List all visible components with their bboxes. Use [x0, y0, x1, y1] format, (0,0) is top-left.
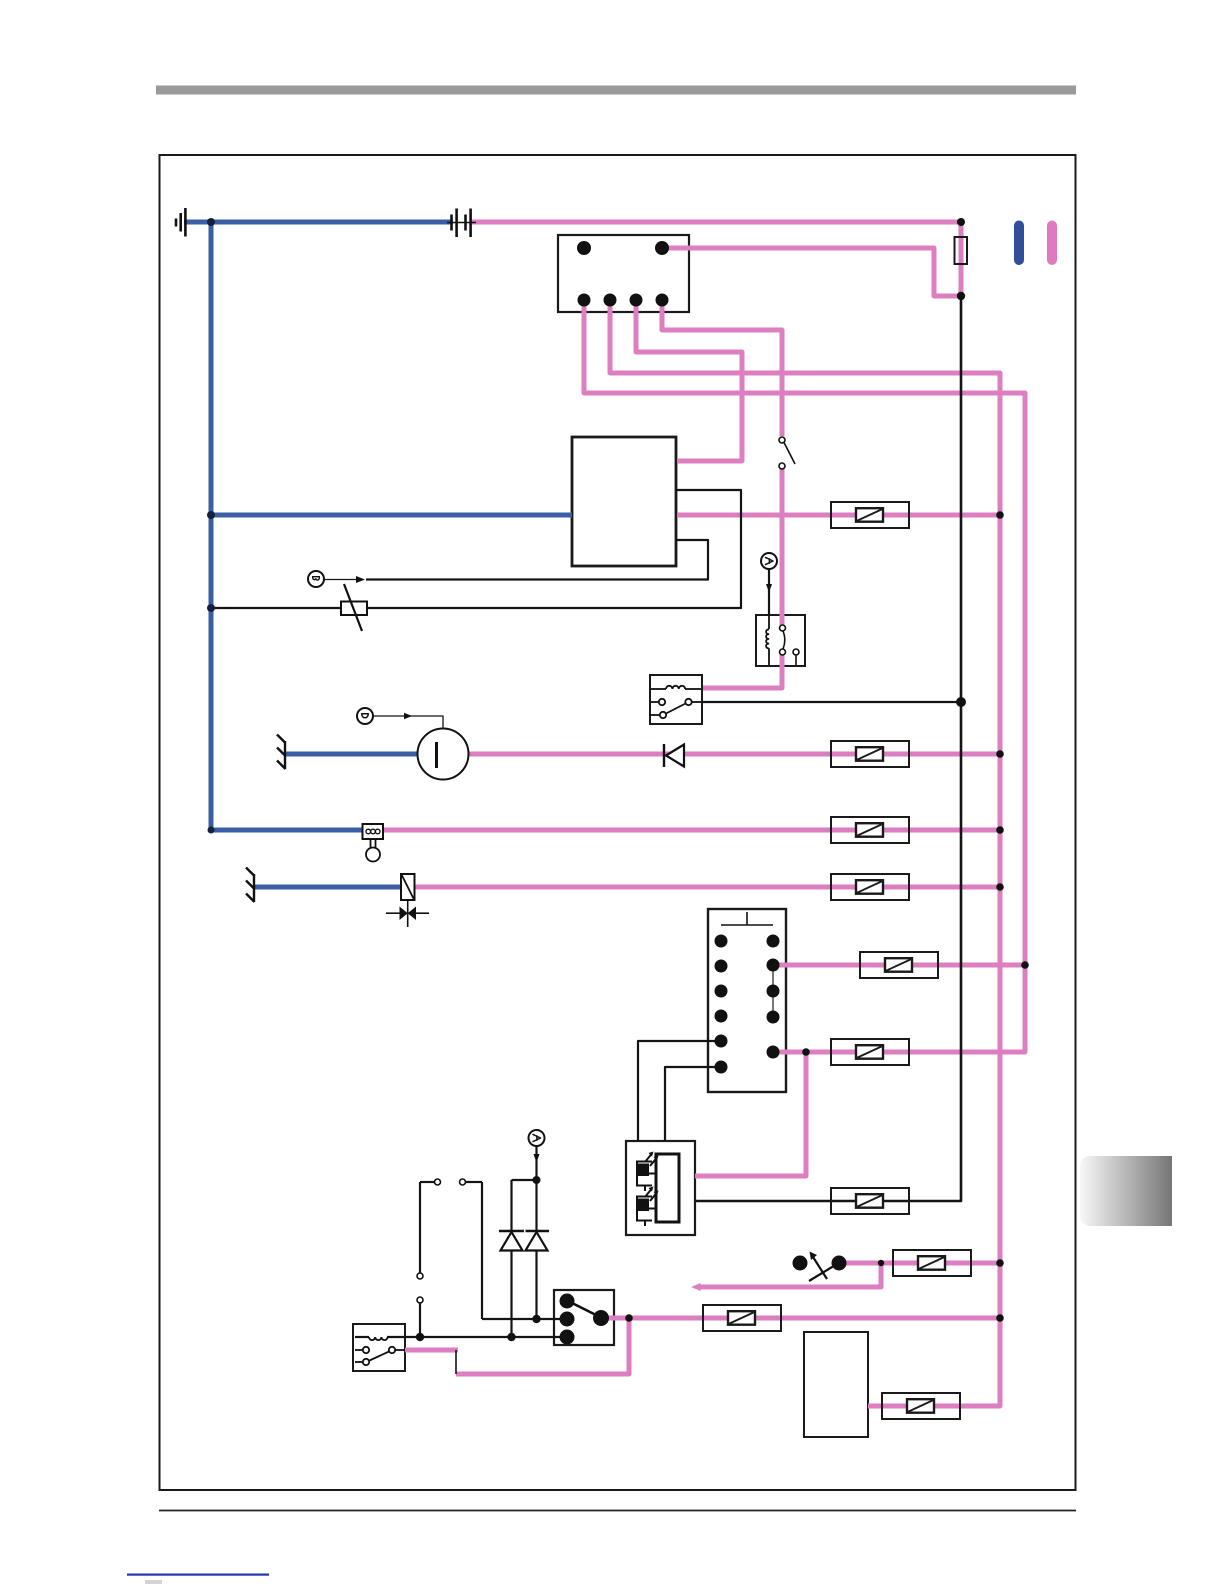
switch SW1 (in pink wire above relay K1) [779, 437, 795, 469]
wire blue to ECU [211, 513, 572, 518]
node blue bus fusible row [207, 604, 215, 612]
wire blue top feed: ground G1 to connector pair [184, 220, 453, 225]
wire black diode D3 branch [535, 1180, 537, 1232]
connector pair symbol CN1 (on top feed row) [447, 209, 476, 238]
diode D1 (gauge row) [664, 744, 684, 767]
relay K2 box (horn relay) [650, 675, 702, 724]
node blue bus corner [208, 827, 215, 834]
connector J2 pins (right column) [767, 935, 780, 948]
ground G1 (battery negative, top left) [176, 208, 185, 237]
relay K3 coil [369, 1337, 388, 1340]
node black bus at relay K2 row [956, 697, 966, 707]
wire black terminal A2 to diode node [535, 1146, 537, 1180]
fuse F6 (J2 lower row) [831, 1039, 909, 1065]
wire pink J2 pin row to bus B [773, 963, 1026, 968]
footer rule [159, 1510, 1076, 1512]
node blue bus ECU row [207, 511, 215, 519]
legend pink bar [1047, 221, 1057, 266]
connector J2 pins (left column) [715, 935, 728, 948]
terminal circle A2 [529, 1130, 545, 1163]
igniter box U2 [626, 1141, 695, 1235]
wire black terminal A1 to relay K1 coil [768, 569, 770, 615]
chassis ground G3 (valve row) [246, 868, 255, 903]
wire black terminal B lead [324, 579, 362, 581]
wire pink continuation arrow (left end of rheostat branch) [691, 1283, 701, 1291]
relay K1 box (with A terminal) [756, 615, 805, 666]
wire pink ECU output row [677, 513, 1000, 518]
fuse F1 (ECU row) [831, 502, 909, 528]
wire pink relay K1 out to relay K2 [703, 655, 782, 688]
diode D2 [499, 1231, 524, 1251]
border frame [160, 155, 1076, 1490]
node bus A ECU row [996, 511, 1004, 519]
relay K1 contacts [780, 625, 800, 665]
connector block J1 (top, ignition switch connector) [558, 235, 689, 312]
footer blue underline [127, 1574, 269, 1576]
connector block J2 (main multi-pin connector) [708, 909, 786, 1092]
wire pink top feed row [471, 220, 961, 225]
chassis ground G2 (gauge row) [277, 735, 286, 770]
wire pink igniter to J2 branch [695, 1052, 806, 1176]
switch SW3 contacts (loop top) [435, 1179, 466, 1185]
wire pink through vertical fuse F0 [959, 222, 964, 296]
wire black right bus from fuse F0 down to igniter fuse row [695, 296, 961, 1201]
page edge gray tab [1080, 1156, 1172, 1226]
solenoid valve V1 [386, 874, 429, 927]
wire black diode D2 branch [510, 1180, 512, 1232]
node loop left leg bottom [416, 1333, 424, 1341]
wire pink SW2 loop to relay K3 [456, 1318, 629, 1374]
wire pink horn row [383, 828, 1000, 833]
wire blue bus vertical [211, 222, 364, 830]
wire pink rheostat row [839, 1261, 1000, 1266]
wire black J2 to igniter feed 2 [665, 1067, 721, 1141]
wire black row to SW2 middle pin [482, 1318, 567, 1320]
relay K3 box (bottom left) [353, 1324, 405, 1371]
fuse F9 (SW2 row) [703, 1305, 781, 1331]
igniter transistor glyph 1 [637, 1152, 659, 1192]
switch SW2 poles [560, 1294, 610, 1345]
wire black thin link at relay K3 output [455, 1350, 457, 1374]
header gray bar [156, 86, 1076, 95]
node top feed at fuse F0 top [957, 218, 965, 226]
fuse F7 (igniter black row) [831, 1188, 909, 1214]
wire pink J1 pin2 to right bus A then bottom fuse row [610, 300, 1000, 1406]
terminal circle D [357, 708, 412, 724]
node igniter branch [802, 1048, 810, 1056]
fuse F8 (rheostat row) [893, 1250, 971, 1276]
node rheostat branch [878, 1260, 884, 1266]
relay K1 coil [766, 615, 769, 665]
ignition switch SW2 box (bottom) [554, 1290, 614, 1345]
horn H1 [363, 824, 384, 862]
connector J2 key mark (T) [721, 912, 773, 925]
connector J1 pins (bottom row) [578, 294, 591, 307]
connector J2 internal links [772, 965, 774, 1017]
footer faint text remnant [145, 1580, 162, 1584]
node bus B J2 row [1021, 961, 1029, 969]
terminal circle B [308, 571, 365, 587]
node diode D3 bottom [532, 1315, 540, 1323]
node SW2 output branch [625, 1314, 633, 1322]
node fuse F0 bottom [957, 292, 965, 300]
node bus A gauge row [996, 750, 1004, 758]
wire black SW3 loop top with contacts gap [420, 1181, 434, 1183]
fuse F5 (J2 upper row) [860, 952, 938, 978]
rheostat R1 (two poles with arrow) [793, 1252, 847, 1282]
fuse F3 (horn row) [831, 817, 909, 843]
relay K3 contacts [355, 1347, 405, 1365]
wire pink SW2 output row [604, 1316, 1000, 1321]
connector contacts on loop left leg [417, 1273, 423, 1303]
legend blue bar [1014, 221, 1024, 266]
node bus A horn row [996, 826, 1004, 834]
wire pink J1 pin3 to ECU [636, 300, 742, 461]
gauge M1 (circle with bar) [418, 729, 469, 780]
wire black relay K3 coil row to SW2 bottom pin [387, 1336, 567, 1338]
igniter U2 internals [637, 1152, 679, 1227]
component box U3 (bottom right, blank) [804, 1332, 868, 1437]
fusible link FL1 (rect with long slash) [341, 584, 367, 631]
wire black ECU to terminal B [366, 540, 708, 580]
connector J1 pins (top row) [577, 241, 591, 255]
wire black relay K2 contact to bus [702, 701, 961, 703]
diode D3 [526, 1231, 550, 1251]
wire pink from J1 pin top-right [668, 248, 961, 296]
node bus A SW2 row [996, 1314, 1004, 1322]
wire black terminal D lead [373, 716, 443, 729]
wire black SW3 loop right leg [481, 1182, 483, 1319]
wire black J2 to igniter feed 1 [638, 1041, 721, 1141]
terminal circle A1 [761, 553, 777, 593]
wire pink J1 pin1 to right bus B [584, 300, 1025, 1052]
fuse F2 (gauge row) [831, 741, 909, 767]
wire black SW3 loop left leg with contacts gap [419, 1182, 421, 1273]
wire black ECU to blue bus (fusible link row) [211, 490, 741, 608]
node diode D2 bottom [507, 1333, 515, 1341]
wire pink rheostat lower branch [697, 1263, 881, 1287]
fuse F4 (valve row) [831, 874, 909, 900]
wire pink SW1 to relay K1 contact [780, 469, 785, 625]
node blue bus top [207, 218, 215, 226]
wire pink relay K3 contact stub [405, 1348, 458, 1353]
wire blue valve row [254, 885, 402, 890]
wire blue gauge row [285, 752, 419, 757]
relay K2 coil and contacts [651, 686, 701, 718]
ECU box U1 [572, 437, 676, 566]
wire black node link between diodes [512, 1179, 537, 1181]
wire pink J1 pin4 to switch SW1 [662, 300, 782, 436]
igniter transistor glyph 2 [637, 1187, 659, 1227]
fuse F10 (U3 row) [882, 1393, 960, 1419]
node diode junction A2 [533, 1176, 541, 1184]
wire pink gauge row with diode [468, 752, 1000, 757]
fuse F0 (vertical, top right) [955, 237, 968, 264]
wire pink valve row [415, 885, 1000, 890]
node bus A rheostat row [996, 1259, 1004, 1267]
node bus A valve row [996, 883, 1004, 891]
